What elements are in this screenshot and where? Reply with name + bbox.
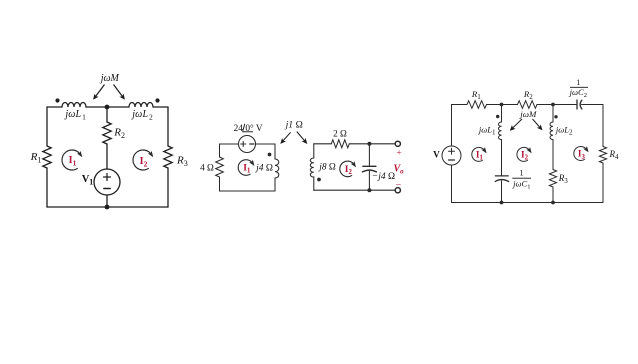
svg-text:2 Ω: 2 Ω (333, 129, 347, 139)
svg-text:1: 1 (520, 169, 524, 178)
svg-text:jωM: jωM (99, 73, 120, 84)
svg-text:j8 Ω: j8 Ω (318, 163, 336, 173)
svg-text:j1 Ω: j1 Ω (284, 120, 303, 131)
svg-text:1: 1 (576, 78, 580, 87)
svg-text:4 Ω: 4 Ω (200, 163, 214, 173)
svg-text:V: V (433, 150, 440, 160)
svg-text:24: 24 (234, 124, 244, 134)
svg-text:−: − (396, 180, 402, 191)
svg-text:jωM: jωM (519, 109, 537, 119)
svg-text:−j4 Ω: −j4 Ω (372, 172, 395, 182)
svg-text:j4 Ω: j4 Ω (254, 164, 273, 174)
svg-text:+: + (396, 148, 401, 158)
